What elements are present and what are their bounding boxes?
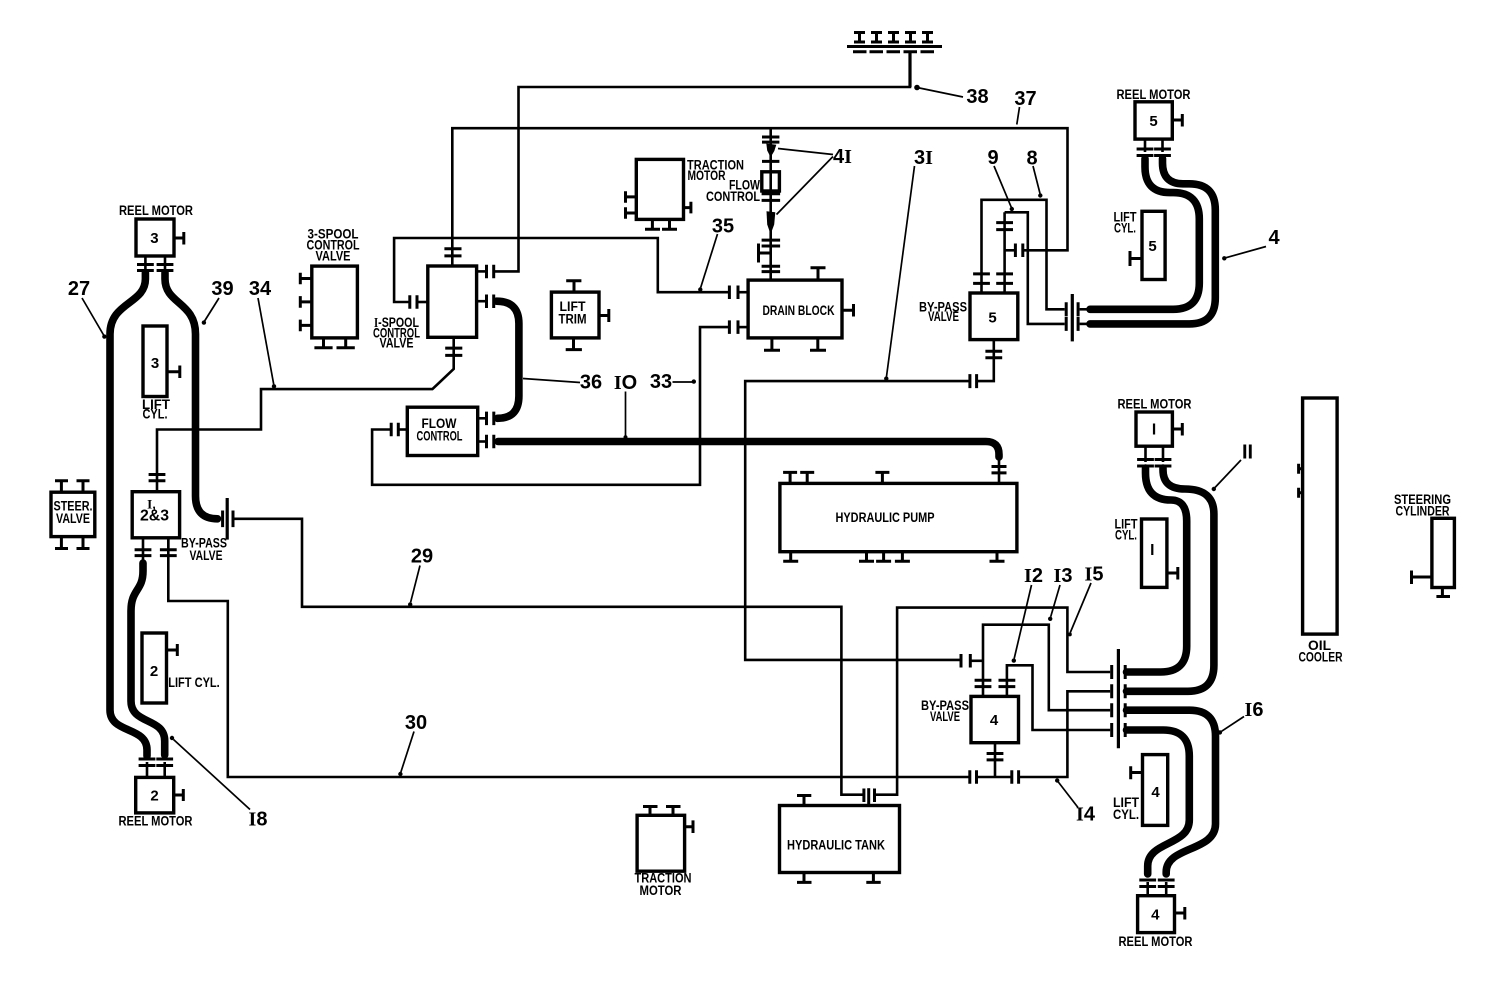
svg-text:MOTOR: MOTOR xyxy=(640,883,682,898)
leader 12 xyxy=(1014,585,1031,659)
hose : manifold port 4 to reel motor 4 left port xyxy=(1127,730,1190,874)
svg-text:I: I xyxy=(1152,422,1156,439)
lift trim xyxy=(551,292,599,338)
connector : wire 37 to by-pass valve 5 xyxy=(1015,244,1022,258)
stub : reel motor 2 right xyxy=(174,789,184,801)
side cap : traction flow control line xyxy=(760,252,771,255)
wire 34 : 1-spool bottom port to 2&3 by-pass valve top port xyxy=(157,337,454,491)
lift cyl 3 xyxy=(143,326,167,397)
hose : reel motor 5 left port to upper bulkhead port xyxy=(1090,159,1199,310)
oil cooler xyxy=(1303,398,1338,634)
leader 11 xyxy=(1215,460,1241,488)
svg-text:TRIM: TRIM xyxy=(559,312,587,327)
svg-text:38: 38 xyxy=(966,86,988,108)
hose : manifold port 1 to reel motor 1 left port xyxy=(1127,468,1187,672)
steer valve xyxy=(51,492,95,536)
svg-text:IO: IO xyxy=(614,372,637,394)
svg-text:5: 5 xyxy=(1148,238,1156,255)
svg-text:4: 4 xyxy=(990,712,999,729)
stubs : traction motor top left ports xyxy=(626,191,637,219)
svg-text:5: 5 xyxy=(1149,113,1157,130)
svg-text:30: 30 xyxy=(405,712,427,734)
ports : below reel motor 1 xyxy=(1137,460,1171,467)
wire : stub flow control left port xyxy=(399,428,407,431)
svg-text:3: 3 xyxy=(151,355,159,372)
svg-text:LIFT CYL.: LIFT CYL. xyxy=(168,675,220,690)
wire : by-pass valve 5 right port vertical xyxy=(1003,212,1006,293)
ports : above reel motor 4 xyxy=(1139,880,1174,887)
ports : below reel motor 5 xyxy=(1137,149,1171,156)
connector : flow control right lower xyxy=(487,435,494,449)
svg-text:2&3: 2&3 xyxy=(140,508,169,525)
svg-text:MOTOR: MOTOR xyxy=(688,168,726,183)
wire 35 : 1-spool left port to drain block upper left xyxy=(394,238,729,302)
reel motor 3 xyxy=(136,219,174,256)
leader 29 xyxy=(411,566,420,603)
stubs : pump top Ts xyxy=(783,472,889,483)
connector : drain block lower left xyxy=(729,320,738,334)
svg-text:8: 8 xyxy=(1026,148,1037,170)
reel motor 1 xyxy=(1136,412,1172,446)
svg-text:CYL.: CYL. xyxy=(143,407,168,422)
svg-text:VALVE: VALVE xyxy=(56,511,90,526)
hose 36 : 1-spool right mid port to flow control upper right port xyxy=(497,301,519,418)
leader 16 xyxy=(1222,717,1245,732)
connector : flow control left xyxy=(391,423,398,437)
traction motor bottom xyxy=(637,815,685,871)
leader 41 lower xyxy=(777,157,834,215)
svg-text:I4: I4 xyxy=(1076,804,1096,826)
leader 10 xyxy=(625,392,627,437)
connector : tank line xyxy=(864,789,875,803)
ticks : below by-pass valve 5 xyxy=(985,351,1002,357)
ticks : 1-spool top port xyxy=(444,249,461,256)
wire 37 : 1-spool valve top port to by-pass valve 5 inlet xyxy=(452,128,1067,266)
wire : stub drain block upper left xyxy=(738,291,748,294)
hose 16 : manifold port 3 to reel motor 4 right port xyxy=(1127,710,1216,874)
stub : traction motor bottom right xyxy=(685,820,693,833)
wire 30 : 2&3 by-pass valve right bottom port to manifold port 2 xyxy=(168,538,970,777)
ticks : below by-pass valve 4 xyxy=(987,754,1004,760)
hydraulic pump xyxy=(780,483,1017,551)
svg-text:36: 36 xyxy=(580,372,602,394)
wire 29 : 2&3 bulkhead to manifold port 1 via tank dip xyxy=(235,519,864,795)
reel motor 2 xyxy=(136,777,174,813)
stubs : 3-spool valve left ports xyxy=(300,273,312,332)
connector : 1-spool right upper xyxy=(487,265,494,279)
wire : by-pass valve 4 bottom port stem xyxy=(994,743,997,777)
svg-text:VALVE: VALVE xyxy=(316,249,351,264)
lift cyl 4 xyxy=(1143,755,1168,826)
bulkhead manifold : four ports xyxy=(1117,649,1120,748)
svg-text:4: 4 xyxy=(1268,227,1280,249)
connector : wire 31 upper xyxy=(970,374,977,388)
svg-text:VALVE: VALVE xyxy=(190,548,223,563)
leader 15 xyxy=(1070,583,1091,633)
wire 8 : by-pass valve 5 left port to upper bulkhead port xyxy=(982,200,1065,309)
svg-text:REEL MOTOR: REEL MOTOR xyxy=(1119,934,1193,949)
connector : 1-spool left xyxy=(410,295,417,309)
svg-text:I: I xyxy=(1150,542,1154,559)
leader 31 xyxy=(887,166,915,377)
lift cyl 1 xyxy=(1142,519,1167,587)
svg-text:34: 34 xyxy=(249,278,272,300)
stub : lift trim right xyxy=(599,309,609,322)
svg-text:I2: I2 xyxy=(1024,565,1043,587)
svg-text:39: 39 xyxy=(211,278,233,300)
leader 35 xyxy=(701,234,718,288)
leader 27 xyxy=(82,298,104,335)
1-spool control valve xyxy=(428,266,477,337)
stub : lift cyl 2 right xyxy=(167,644,178,656)
svg-text:HYDRAULIC PUMP: HYDRAULIC PUMP xyxy=(836,510,935,525)
svg-text:I5: I5 xyxy=(1085,564,1104,586)
leader 4 xyxy=(1226,247,1266,258)
hose 11 : manifold port 2 to reel motor 1 right port xyxy=(1127,468,1214,691)
svg-text:35: 35 xyxy=(712,216,734,238)
svg-text:29: 29 xyxy=(411,546,433,568)
wire : stubs flow control right ports xyxy=(478,417,486,420)
wire 9 : inner staircase to lower bulkhead port xyxy=(1005,212,1065,324)
drain block xyxy=(748,280,842,338)
stub : reel motor 3 right xyxy=(174,232,184,245)
stub : reel motor 1 right xyxy=(1172,423,1182,436)
hose 4 : reel motor 5 right port to lower bulkhead port xyxy=(1090,159,1215,324)
leader 36 xyxy=(523,379,580,383)
leader 13 xyxy=(1051,585,1060,617)
stub : lift trim top xyxy=(566,281,581,292)
connector : 1-spool right mid xyxy=(487,295,494,309)
stub : drain block right xyxy=(842,304,854,317)
svg-text:CYL.: CYL. xyxy=(1115,528,1137,543)
svg-text:VALVE: VALVE xyxy=(928,309,959,324)
svg-text:27: 27 xyxy=(68,278,90,300)
svg-text:I6: I6 xyxy=(1245,699,1264,721)
svg-text:33: 33 xyxy=(650,371,672,393)
svg-text:HYDRAULIC TANK: HYDRAULIC TANK xyxy=(787,838,885,853)
svg-text:VALVE: VALVE xyxy=(380,336,414,351)
bulkhead connector : 2&3 by-pass to wire 29 xyxy=(223,511,233,528)
svg-text:CONTROL: CONTROL xyxy=(706,189,760,204)
reel motor 4 xyxy=(1138,896,1175,933)
svg-text:4: 4 xyxy=(1151,784,1160,801)
leader 30 xyxy=(401,732,414,773)
svg-text:CYLINDER: CYLINDER xyxy=(1396,504,1450,519)
svg-text:37: 37 xyxy=(1014,88,1036,110)
stub : lift cyl 1 right xyxy=(1167,567,1178,580)
by-pass valve 2&3 xyxy=(132,492,179,538)
svg-text:CONTROL: CONTROL xyxy=(417,429,463,444)
ticks : by-pass valve 5 right vertical upper pair xyxy=(996,223,1013,230)
stubs : oil cooler left xyxy=(1299,464,1303,498)
by-pass valve 4 xyxy=(971,696,1019,742)
svg-text:REEL MOTOR: REEL MOTOR xyxy=(1118,397,1192,412)
leader 14 xyxy=(1058,782,1078,808)
stub : lift trim bottom xyxy=(566,338,582,350)
svg-text:3: 3 xyxy=(150,230,158,247)
stub : reel motor 5 right xyxy=(1172,114,1182,127)
wire : flow control box feed line vertical with traction flow control xyxy=(769,128,772,280)
svg-text:REEL MOTOR: REEL MOTOR xyxy=(119,814,193,829)
hose 27 : reel motor 3 left port to reel motor 2 left port xyxy=(110,273,147,757)
svg-text:DRAIN BLOCK: DRAIN BLOCK xyxy=(763,303,835,318)
wire : by-pass valve 4 left port staircase to manifold port 3 xyxy=(983,625,1110,711)
wire : by-pass valve 4 right port staircase to manifold port 4 xyxy=(1007,665,1110,730)
stub : traction motor top right xyxy=(684,202,691,214)
wire : right stubs of upper bulkhead to hoses xyxy=(1080,308,1091,311)
svg-text:4I: 4I xyxy=(833,146,852,168)
svg-text:9: 9 xyxy=(987,147,998,169)
svg-text:2: 2 xyxy=(150,663,158,680)
svg-text:I8: I8 xyxy=(249,809,268,831)
flow control small box xyxy=(762,172,780,191)
svg-text:3I: 3I xyxy=(914,147,933,169)
svg-text:REEL MOTOR: REEL MOTOR xyxy=(119,203,193,218)
wire : hose 10 end stem into pump xyxy=(998,457,1001,483)
feet : tank bottom xyxy=(797,873,881,883)
svg-text:II: II xyxy=(1242,442,1253,464)
wire 31 : by-pass valve 5 bottom port to by-pass valve 4 left line xyxy=(977,340,994,382)
stub : steering cylinder left xyxy=(1412,571,1432,585)
lift cyl 5 xyxy=(1142,211,1165,279)
leader 34 xyxy=(258,298,274,384)
bulkhead connector : by-pass valve 5 hoses xyxy=(1066,302,1078,331)
ticks : 1-spool bottom port xyxy=(445,348,462,355)
svg-text:CYL.: CYL. xyxy=(1114,221,1136,236)
flow control box xyxy=(407,407,477,455)
by-pass valve 5 xyxy=(970,293,1018,340)
wire : stub from connector to by-pass valve 5 right port line xyxy=(1005,249,1016,252)
leader 9 xyxy=(994,166,1011,207)
connector : wire 30 right xyxy=(1012,770,1019,784)
leader 18 xyxy=(174,740,251,810)
ticks : traction flow control line xyxy=(762,137,781,272)
wire 33 : drain block lower left to flow control left port xyxy=(372,327,729,485)
stub : drain block top T xyxy=(811,268,826,280)
connector : wire 31 lower xyxy=(961,654,970,668)
port : above 2&3 by-pass valve xyxy=(149,475,166,481)
steering cylinder xyxy=(1432,518,1455,587)
feet : 3-spool valve xyxy=(314,338,354,348)
ports : above by-pass valve 5 xyxy=(973,274,1013,284)
stubs : traction motor bottom top Ts xyxy=(643,807,681,816)
ticks : hose 10 pump port xyxy=(992,467,1007,473)
leader 37 xyxy=(1017,107,1020,125)
stub : lift cyl 4 left xyxy=(1131,766,1143,779)
feet : traction motor top xyxy=(645,219,677,229)
wire : manifold drop to 1-spool right upper port xyxy=(494,52,910,271)
ports : above by-pass valve 4 xyxy=(975,680,1016,686)
ports : below 2&3 by-pass valve xyxy=(135,550,177,556)
svg-text:I3: I3 xyxy=(1054,565,1073,587)
hose 39 : reel motor 3 right port to 2&3 bulkhead connector xyxy=(165,273,218,519)
svg-text:COOLER: COOLER xyxy=(1299,650,1343,665)
wire : stub 1-spool right upper port xyxy=(477,270,486,273)
connector : flow control right upper xyxy=(487,412,494,426)
leader 41 upper xyxy=(778,149,833,155)
leader 38 xyxy=(917,88,963,98)
svg-text:2: 2 xyxy=(150,788,158,805)
svg-text:VALVE: VALVE xyxy=(930,709,960,724)
stub : tank top T xyxy=(797,796,811,806)
ports : above reel motor 2 xyxy=(139,759,174,766)
wire : stub 1-spool right mid port xyxy=(477,300,486,303)
connector : drain block upper left xyxy=(729,286,738,300)
wire : stub drain block lower left xyxy=(738,326,748,329)
feet : pump bottom xyxy=(783,552,1004,562)
stub : reel motor 4 right xyxy=(1175,907,1185,920)
wire : tank connector bar stem xyxy=(867,788,870,806)
svg-text:5: 5 xyxy=(988,310,996,327)
svg-text:REEL MOTOR: REEL MOTOR xyxy=(1117,87,1191,102)
connector : wire 30 left xyxy=(970,770,977,784)
hose : 2&3 by-pass valve left bottom port to reel motor 2 right port xyxy=(131,563,165,755)
reel motor 5 xyxy=(1135,102,1172,139)
node : gang connector IIIII xyxy=(847,33,942,52)
svg-text:CYL.: CYL. xyxy=(1113,807,1139,822)
stub : steering cylinder bottom T xyxy=(1436,588,1450,597)
leader 39 xyxy=(205,298,219,321)
leader 8 xyxy=(1033,166,1040,194)
stubs : steer valve top xyxy=(55,481,90,493)
wire : stub 1-spool left port xyxy=(418,301,428,304)
svg-text:4: 4 xyxy=(1151,907,1160,924)
traction motor top xyxy=(636,159,683,219)
hydraulic tank xyxy=(780,806,900,873)
ports : below reel motor 3 xyxy=(137,265,173,271)
lift cyl 2 xyxy=(142,633,167,703)
feet : drain block xyxy=(764,338,826,350)
3-spool control valve xyxy=(312,266,358,338)
stubs : steer valve bottom xyxy=(55,537,90,549)
hose 10 : flow control lower right port to hydraulic pump top xyxy=(498,442,999,458)
stub : lift cyl 3 right xyxy=(167,366,180,379)
leader 33 xyxy=(673,381,693,383)
stub : lift cyl 5 left xyxy=(1130,251,1142,266)
